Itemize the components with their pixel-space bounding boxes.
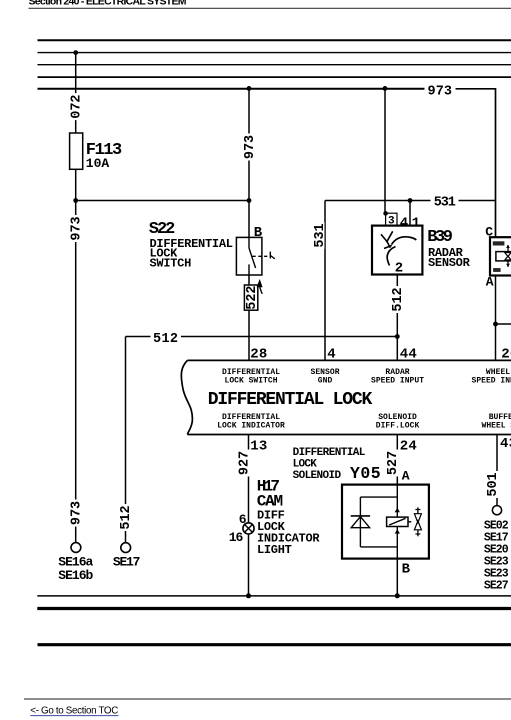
svg-text:Section 240 - ELECTRICAL SYSTE: Section 240 - ELECTRICAL SYSTEM	[29, 0, 187, 8]
svg-text:A: A	[486, 275, 494, 290]
svg-text:2: 2	[395, 260, 403, 276]
svg-text:Y05: Y05	[350, 464, 381, 483]
svg-text:973: 973	[428, 84, 453, 99]
svg-text:531: 531	[313, 223, 328, 247]
svg-text:A: A	[402, 468, 410, 483]
svg-text:WHEEL SPEED: WHEEL SPEED	[482, 421, 511, 430]
svg-text:501: 501	[486, 472, 501, 496]
svg-text:24: 24	[400, 438, 417, 454]
svg-text:DIFFERENTIAL: DIFFERENTIAL	[293, 447, 366, 459]
svg-text:C: C	[485, 225, 493, 240]
svg-text:SE16b: SE16b	[58, 568, 93, 583]
svg-text:CAM: CAM	[257, 492, 283, 510]
svg-text:973: 973	[243, 135, 258, 159]
svg-text:SE27: SE27	[484, 579, 509, 592]
svg-text:973: 973	[70, 501, 85, 525]
svg-text:512: 512	[153, 332, 178, 347]
svg-text:16: 16	[229, 530, 244, 545]
svg-text:927: 927	[237, 451, 252, 475]
svg-text:10A: 10A	[86, 156, 110, 171]
svg-text:527: 527	[386, 451, 401, 475]
svg-text:B: B	[402, 562, 411, 578]
svg-text:B39: B39	[427, 228, 453, 247]
svg-text:SWITCH: SWITCH	[150, 256, 192, 270]
svg-text:4: 4	[400, 215, 408, 231]
svg-text:DIFF.LOCK: DIFF.LOCK	[376, 421, 420, 430]
svg-text:531: 531	[434, 195, 456, 210]
svg-text:LOCK INDICATOR: LOCK INDICATOR	[217, 421, 285, 430]
svg-text:DIFFERENTIAL LOCK: DIFFERENTIAL LOCK	[208, 390, 373, 410]
svg-text:SOLENOID: SOLENOID	[293, 470, 342, 482]
svg-text:LOCK SWITCH: LOCK SWITCH	[225, 376, 278, 385]
svg-text:GND: GND	[318, 376, 333, 385]
svg-text:13: 13	[250, 438, 267, 454]
svg-text:SPEED INPUT: SPEED INPUT	[472, 376, 511, 385]
svg-text:SENSOR: SENSOR	[428, 256, 471, 270]
svg-text:512: 512	[119, 505, 134, 529]
svg-text:072: 072	[70, 94, 85, 118]
svg-text:LOCK: LOCK	[293, 459, 318, 471]
svg-text:1: 1	[412, 215, 420, 231]
svg-text:SPEED INPUT: SPEED INPUT	[371, 376, 424, 385]
svg-text:973: 973	[70, 216, 85, 240]
svg-text:<- Go to Section TOC: <- Go to Section TOC	[30, 706, 118, 717]
svg-text:6: 6	[239, 512, 247, 527]
svg-text:522: 522	[245, 285, 260, 309]
svg-text:43: 43	[500, 436, 511, 452]
svg-text:SE17: SE17	[113, 555, 140, 570]
svg-text:LIGHT: LIGHT	[257, 543, 292, 557]
svg-text:512: 512	[391, 287, 406, 311]
